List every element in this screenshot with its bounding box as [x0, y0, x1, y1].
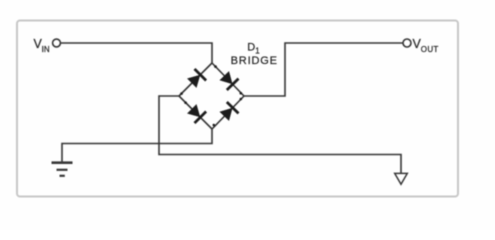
bridge diamond top-right edge	[212, 63, 244, 96]
wire bridge bottom vertex to left ground	[62, 129, 212, 162]
svg-text:OUT: OUT	[421, 45, 439, 54]
terminal VIN circle	[53, 39, 61, 47]
svg-text:IN: IN	[42, 45, 50, 54]
junction dot bottom-left edge	[184, 101, 187, 104]
terminal VOUT circle	[403, 39, 411, 47]
junction dot right vertex upper	[240, 92, 243, 95]
junction dot right vertex lower	[240, 98, 243, 101]
wire bridge left vertex to bottom rail	[159, 96, 401, 173]
wire bridge right vertex to VOUT	[244, 43, 403, 96]
wire VIN to bridge top	[61, 43, 213, 64]
diode D1 arm left-top	[187, 69, 206, 88]
bridge diamond top-left edge	[179, 63, 212, 96]
bridge diamond bottom-right edge	[212, 96, 244, 129]
diode D1 arm top-right	[220, 71, 239, 90]
border frame	[17, 21, 458, 197]
svg-text:BRIDGE: BRIDGE	[231, 55, 278, 67]
ground earth symbol left	[52, 163, 73, 176]
junction dot bottom-right edge	[213, 124, 216, 127]
bridge diamond bottom-left edge	[179, 96, 212, 129]
junction dot top-right edge	[214, 65, 217, 68]
junction dot top-left edge	[180, 92, 183, 95]
svg-text:D: D	[247, 41, 255, 53]
ground arrow symbol right	[395, 173, 408, 184]
diode D1 arm bottom-right	[220, 102, 239, 121]
diode D1 arm left-bottom	[187, 104, 206, 123]
